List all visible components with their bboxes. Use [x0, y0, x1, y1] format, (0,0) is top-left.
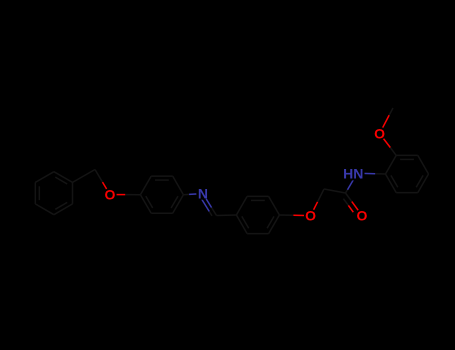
bond ringC C4-O2: [279, 214, 293, 216]
svg-text:HN: HN: [343, 165, 363, 181]
bond Cc-N2 (amide N): [346, 190, 348, 193]
bond CH-ringC C1: [217, 214, 237, 217]
bond ringB-CH2 (benzyl): [73, 170, 96, 183]
bond O3-CH3 (methyl): [380, 115, 390, 133]
svg-text:O: O: [105, 187, 116, 203]
bond ringA C4-N1: [183, 193, 189, 195]
svg-text:O: O: [357, 208, 368, 224]
double bond N1=CH (imine): [203, 194, 212, 208]
bond CH2-C carbonyl: [324, 189, 346, 193]
benzene ring A (4-benzyloxyphenyl): [140, 176, 183, 213]
bond CH2-O1: [95, 170, 103, 183]
label background masks: [103, 188, 116, 201]
benzene ring C (central phenoxy): [236, 196, 279, 233]
benzene ring D (2-methoxyphenyl): [386, 155, 429, 192]
bond ringD C2-O3: [390, 148, 396, 156]
bond N2-ringD C1: [357, 172, 375, 174]
benzene ring B (benzyl phenyl): [35, 172, 72, 215]
svg-text:O: O: [374, 126, 385, 142]
bond O2-CH2: [311, 202, 318, 216]
double bond C=O (amide carbonyl): [346, 193, 352, 202]
bond O1-ringA C1: [125, 194, 140, 196]
svg-text:N: N: [198, 185, 208, 201]
svg-text:O: O: [305, 208, 316, 224]
